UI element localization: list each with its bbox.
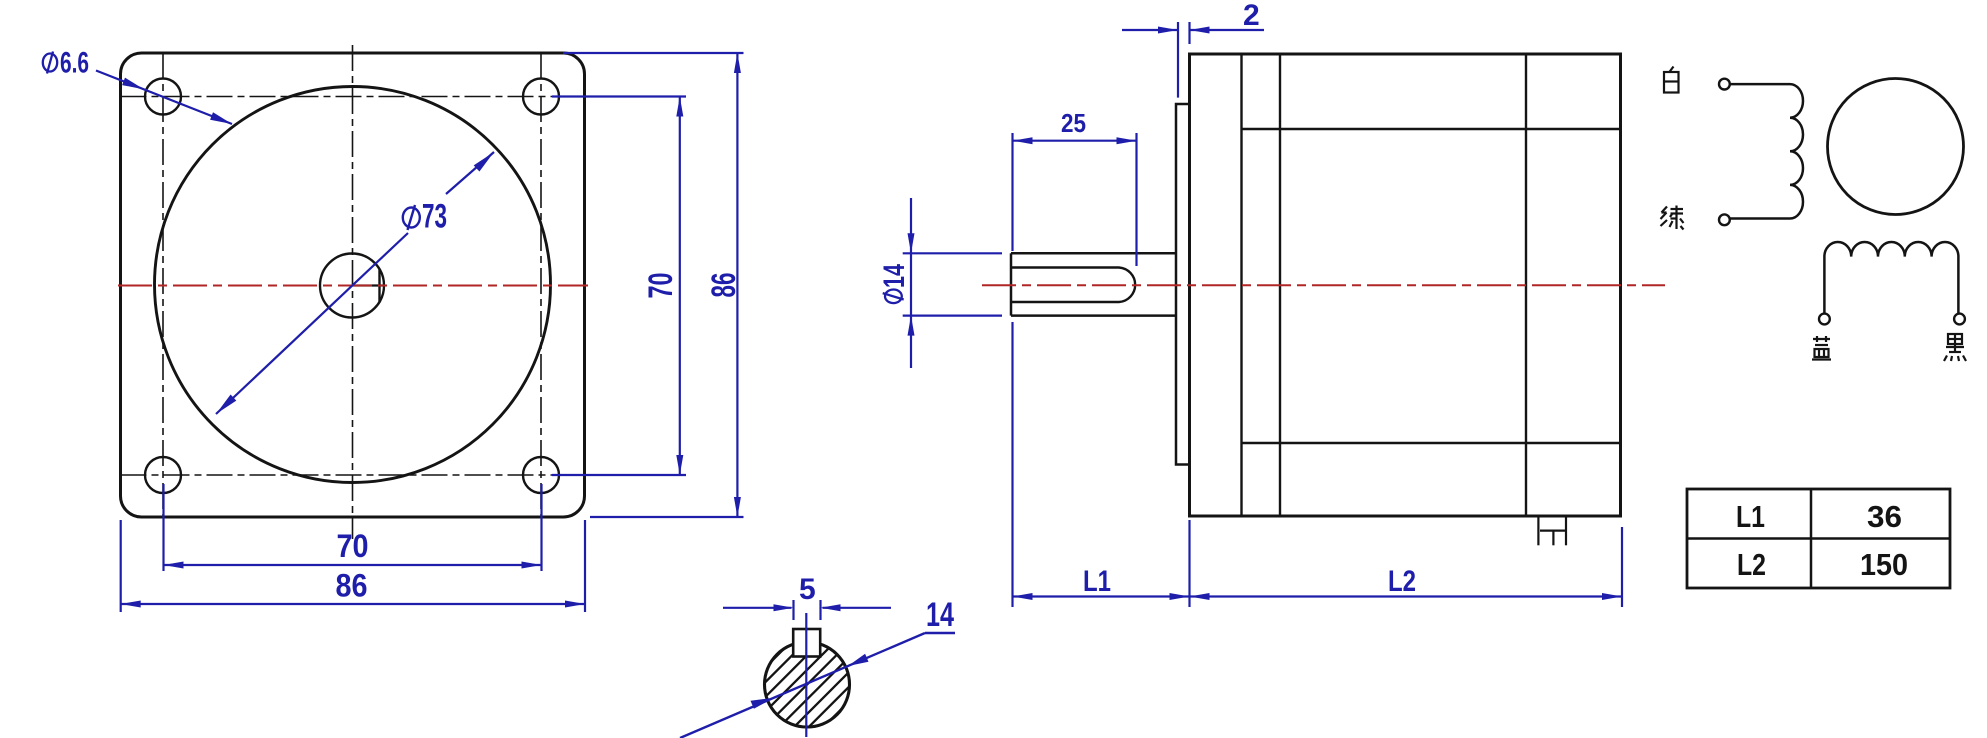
label lv (green) <box>1661 206 1684 230</box>
section shaft circle <box>765 642 850 727</box>
dim 25 line <box>1013 140 1137 142</box>
dimension line 86 bottom <box>121 603 585 605</box>
svg-text:70: 70 <box>337 528 369 564</box>
red centerline side view <box>982 284 1665 286</box>
label hei (black) <box>1944 334 1966 361</box>
coil phase B <box>1824 242 1958 314</box>
red horizontal centerline front view <box>118 285 588 287</box>
label D14 (rotated) <box>878 264 911 303</box>
bolt hole top-right <box>523 79 559 115</box>
svg-text:150: 150 <box>1860 547 1908 582</box>
svg-text:70: 70 <box>642 273 680 299</box>
dimension line 70 bottom <box>164 564 542 566</box>
cable exit tab <box>1537 518 1539 546</box>
front endcap line 1 <box>1240 54 1242 516</box>
arrowheads dim L2 <box>1190 593 1210 600</box>
leader line D6.6 <box>96 71 232 125</box>
svg-text:14: 14 <box>878 264 911 288</box>
svg-text:L1: L1 <box>1736 499 1765 534</box>
flange plate <box>1176 104 1190 465</box>
shaft end line <box>1010 253 1013 315</box>
dim 5 lines <box>723 607 792 609</box>
arrowheads 86 right <box>734 53 741 73</box>
front endcap line 2 <box>1279 54 1281 516</box>
label D6.6 <box>43 52 57 74</box>
extension lines 70 right <box>552 95 686 97</box>
shaft top line <box>1011 252 1176 255</box>
dim L2 line <box>1190 595 1623 597</box>
table row divider <box>1687 537 1950 540</box>
section centerline blue <box>805 613 807 737</box>
arrowheads dim 2 <box>1158 27 1178 34</box>
svg-text:L2: L2 <box>1388 565 1416 598</box>
dim D14 extension lines <box>903 252 1002 254</box>
dim 14 leader <box>680 633 925 738</box>
arrowheads dim 14 <box>751 698 775 709</box>
dim 2 extension lines <box>1177 22 1179 98</box>
svg-text:L1: L1 <box>1083 565 1111 598</box>
dim L1 L2 extension lines <box>1011 322 1013 607</box>
svg-text:73: 73 <box>422 198 447 236</box>
hole row centerline bottom <box>121 474 585 476</box>
shaft flat chord <box>378 269 380 303</box>
arrowheads dim 5 <box>774 604 794 611</box>
label lan (blue) <box>1812 336 1831 360</box>
dim 2 lines <box>1122 29 1178 31</box>
arrowheads dim L1 <box>1013 593 1033 600</box>
label bai (white) <box>1664 67 1679 93</box>
phase A terminal top <box>1719 79 1730 90</box>
dim 25 extension lines <box>1011 133 1013 251</box>
extension lines 70 bottom <box>162 484 164 571</box>
center mark tick <box>353 284 385 286</box>
svg-text:6.6: 6.6 <box>60 47 89 80</box>
dimension line D73 lower segment <box>216 233 408 414</box>
dim L1 line <box>1013 595 1190 597</box>
pilot boss circle D73 <box>155 87 551 483</box>
bolt hole bottom-left <box>145 457 181 493</box>
stator top line <box>1242 128 1621 130</box>
svg-text:L2: L2 <box>1737 547 1766 582</box>
rear endcap line <box>1525 54 1527 516</box>
rotor circle <box>1828 79 1964 215</box>
bolt hole bottom-right <box>523 457 559 493</box>
section hatch <box>734 611 881 738</box>
dim D14 line <box>910 198 912 368</box>
extension lines 86 right <box>563 52 744 54</box>
table outline <box>1687 489 1950 588</box>
motor body <box>1190 54 1621 516</box>
shaft keyway slot <box>1011 268 1135 303</box>
svg-text:2: 2 <box>1243 0 1260 32</box>
arrowheads 70 bottom <box>164 562 184 569</box>
svg-text:86: 86 <box>336 568 368 604</box>
dimension line 86 right <box>736 53 738 517</box>
phase B terminal left <box>1819 314 1830 325</box>
coil phase A <box>1731 84 1804 218</box>
stator bottom line <box>1242 442 1621 444</box>
arrowheads dim 25 <box>1013 137 1033 144</box>
phase B terminal right <box>1954 314 1965 325</box>
hole column centerline left <box>162 53 164 517</box>
svg-text:86: 86 <box>705 273 743 298</box>
table column divider <box>1810 489 1813 588</box>
arrowheads dim D14 <box>908 233 915 253</box>
hole column centerline right <box>540 53 542 517</box>
arrowheads D6.6 leader <box>122 78 144 90</box>
svg-text:5: 5 <box>799 573 816 606</box>
dimension line 70 right <box>679 97 681 476</box>
label D73 <box>403 205 420 230</box>
arrowheads 86 bottom <box>121 601 141 608</box>
extension lines 86 bottom <box>120 520 122 612</box>
arrowheads D73 <box>474 152 494 172</box>
vertical centerline <box>352 45 354 539</box>
hole row centerline top <box>121 96 585 98</box>
bolt hole top-left <box>145 79 181 115</box>
svg-text:25: 25 <box>1061 108 1086 138</box>
svg-text:36: 36 <box>1867 499 1902 534</box>
shaft bottom line <box>1011 314 1176 317</box>
dimension line D73 upper segment <box>446 152 494 194</box>
shaft circle <box>320 254 384 318</box>
section keyway <box>793 629 820 657</box>
svg-text:14: 14 <box>926 596 954 634</box>
front flange outline <box>121 53 585 517</box>
phase A terminal bottom <box>1719 214 1730 225</box>
arrowheads 70 right <box>676 97 683 117</box>
